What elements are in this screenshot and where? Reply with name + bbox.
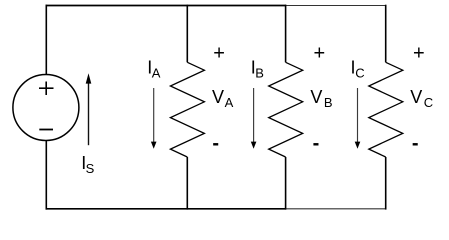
resistor RA zigzag <box>170 62 204 157</box>
wire branch A bottom lead <box>186 157 188 210</box>
svg-text:B: B <box>255 66 264 81</box>
wire branch C top lead <box>385 5 387 63</box>
svg-text:C: C <box>424 95 433 110</box>
current arrow IS (upward) <box>86 73 92 145</box>
svg-text:+: + <box>413 43 425 65</box>
resistor RC zigzag <box>369 62 403 157</box>
svg-text:A: A <box>152 66 161 81</box>
resistor RB zigzag <box>269 62 303 157</box>
wire branch C bottom lead <box>385 157 387 210</box>
svg-text:V: V <box>212 87 224 107</box>
wire bottom rail right segment <box>286 208 386 210</box>
current arrow IA (downward) <box>151 88 157 149</box>
svg-text:-: - <box>313 132 320 154</box>
wire bottom rail left segment <box>46 208 287 210</box>
svg-text:C: C <box>355 66 364 81</box>
wire left lead above source <box>45 5 47 75</box>
svg-text:+: + <box>213 43 225 65</box>
svg-text:V: V <box>410 87 422 107</box>
voltage source VS minus mark <box>39 129 53 131</box>
wire branch A top lead <box>186 5 188 63</box>
current arrow IB (downward) <box>251 88 257 149</box>
current arrow IC (downward) <box>355 88 361 149</box>
wire top rail right segment <box>286 5 386 7</box>
svg-text:A: A <box>225 95 234 110</box>
wire branch B bottom lead <box>285 157 287 210</box>
svg-text:V: V <box>310 87 322 107</box>
wire top rail left segment <box>46 5 287 7</box>
svg-text:-: - <box>212 132 219 154</box>
svg-text:+: + <box>313 43 325 65</box>
wire branch B top lead <box>285 5 287 63</box>
svg-text:-: - <box>412 132 419 154</box>
voltage source VS circle <box>13 75 79 141</box>
wire left lead below source <box>45 140 47 209</box>
svg-text:B: B <box>324 95 333 110</box>
svg-text:S: S <box>86 161 95 176</box>
voltage source VS plus mark <box>39 82 54 96</box>
